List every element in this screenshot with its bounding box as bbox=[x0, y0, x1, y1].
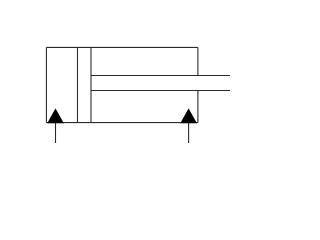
piston rod lower line bbox=[91, 90, 230, 92]
cylinder body outline bbox=[46, 47, 230, 143]
piston right line bbox=[90, 47, 92, 122]
piston rod upper line bbox=[91, 75, 230, 77]
wire right edge upper segment bbox=[197, 47, 199, 75]
piston left line bbox=[77, 47, 79, 122]
wire top of cylinder bbox=[46, 46, 198, 48]
port stub right bbox=[188, 123, 190, 143]
wire left edge of cylinder bbox=[45, 47, 47, 122]
port arrow left bbox=[48, 109, 64, 123]
port arrow right bbox=[181, 109, 197, 123]
wire bottom of cylinder bbox=[46, 122, 198, 124]
port stub left bbox=[55, 123, 57, 143]
wire right edge lower segment bbox=[197, 91, 199, 123]
